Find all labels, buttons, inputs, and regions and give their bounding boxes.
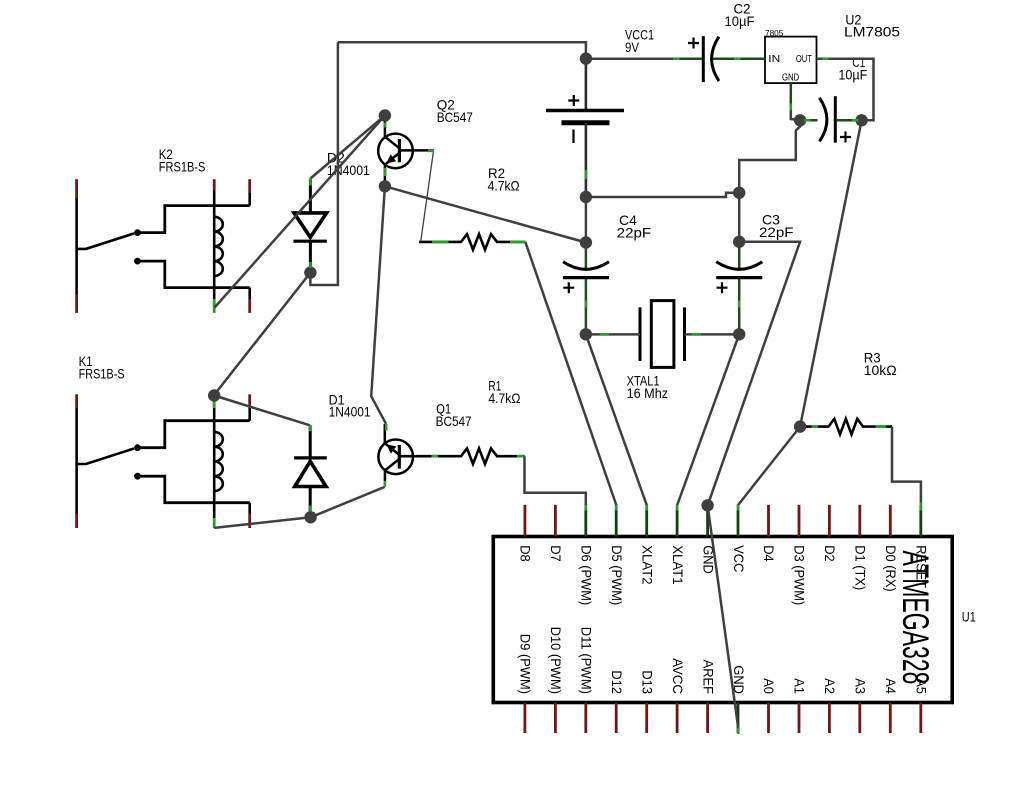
svg-text:A4: A4 [883,678,899,694]
pin A5 (U1 bottom) [919,703,922,734]
node C1 left (GND net) [794,114,806,126]
wire C4 bottom to XLAT2 [586,334,647,505]
green connection ticks [310,59,921,734]
svg-text:OUT: OUT [796,54,812,65]
node Q2 collector junction [379,109,391,121]
node C1 right (5V net) [855,114,867,126]
svg-text:D0 (RX): D0 (RX) [883,545,899,592]
pin D12 (U1 bottom) [615,703,618,734]
relay K2 [77,179,250,313]
svg-text:D1 (TX): D1 (TX) [853,545,869,590]
wire Q2 emitter to Q1 emitter [371,186,386,424]
svg-text:D3 (PWM): D3 (PWM) [792,545,808,605]
wire R1 to D6 [525,456,586,505]
diode D2 [293,179,326,273]
battery VCC1 [546,59,624,197]
capacitor C1 [819,96,851,143]
svg-text:D8: D8 [518,545,534,562]
svg-text:XLAT2: XLAT2 [639,545,655,585]
wire C1 to R3 diagonal [800,120,862,426]
wire 7805 OUT to C1 right [817,59,874,121]
IC U1 ATMEGA328 [493,537,952,703]
wire R3 to RESET [892,427,921,504]
pin AREF (U1 bottom) [706,703,709,734]
wire D1 anode to Q1 collector [311,487,385,517]
node GND jog junction [733,187,745,199]
svg-text:4.7kΩ: 4.7kΩ [488,178,520,194]
node Q2 emitter junction [379,180,391,192]
svg-text:22pF: 22pF [617,225,652,241]
resistor R1 [398,448,524,464]
svg-text:IN: IN [768,54,780,65]
svg-text:10µF: 10µF [725,13,755,29]
svg-text:FRS1B-S: FRS1B-S [159,159,206,175]
pin D8 (U1 top) [524,505,527,537]
svg-text:9V: 9V [625,39,640,55]
wire 7805 GND down [791,110,800,120]
svg-text:10kΩ: 10kΩ [864,362,897,378]
pin A4 (U1 bottom) [889,703,892,734]
pin D0 (U1 top) [889,505,892,537]
svg-text:D4: D4 [761,545,777,562]
svg-text:BC547: BC547 [436,413,472,429]
svg-text:D7: D7 [548,545,564,562]
svg-text:D9 (PWM): D9 (PWM) [518,634,534,694]
pin GND (U1 top) [706,505,709,537]
pin D9 (U1 bottom) [524,703,527,734]
svg-text:A0: A0 [761,678,777,694]
node C3/XTAL1 right junction [733,328,745,340]
wire VCC riser to D2 cathode [310,42,338,285]
node K1 coil top junction [208,389,220,401]
pin D3 (U1 top) [798,505,801,537]
capacitor C3 [716,242,762,334]
wire K1 coil top to D1 cathode [214,396,310,426]
wire C3 top to GND pin diagonal [708,242,800,506]
node battery- junction [580,191,592,203]
wire R3 to VCC pin diagonal [738,427,800,505]
svg-text:A1: A1 [792,678,808,694]
pin VCC (U1 top) [737,505,740,537]
pin A2 (U1 bottom) [828,703,831,734]
wire C1 left lead [800,119,817,122]
wire C3 bottom to XLAT1 [677,334,739,505]
pin D2 (U1 top) [828,505,831,537]
svg-text:RESET: RESET [914,545,930,588]
pin GND2 (U1 bottom) [737,703,740,734]
node GND pin junction [701,499,713,511]
svg-text:U1: U1 [962,609,976,625]
pin D6 (U1 top) [584,505,587,537]
svg-text:1N4001: 1N4001 [329,404,371,420]
svg-text:4.7kΩ: 4.7kΩ [488,390,520,406]
svg-text:A3: A3 [853,678,869,694]
svg-text:AREF: AREF [700,660,716,694]
pin XLAT1 (U1 top) [676,505,679,537]
svg-text:LM7805: LM7805 [844,24,900,40]
transistor Q2 [378,116,433,187]
svg-text:16 Mhz: 16 Mhz [627,385,669,401]
node D1 anode junction [304,511,316,523]
pin D11 (U1 bottom) [584,703,587,734]
wire GND junction to C3 top [738,193,741,242]
pin D10 (U1 bottom) [554,703,557,734]
node C4/XTAL1 left junction [580,328,592,340]
wire D1 anode to K1 coil bottom [214,517,310,528]
node D2 cathode junction [304,266,316,278]
pin A1 (U1 bottom) [798,703,801,734]
wire R2 to D5 [525,242,616,505]
regulator U2 7805 [765,28,817,84]
svg-text:7805: 7805 [765,28,784,38]
wire GND pin to bottom GND diagonal [708,505,739,730]
wire VCC top rail [338,42,586,58]
node C3 top (GND net) [733,236,745,248]
pin D7 (U1 top) [554,505,557,537]
resistor R2 [419,234,525,250]
wire C2 to 7805 IN [740,57,765,60]
wire Q2 emitter to C4 top (GND) [385,186,586,242]
wire Q2 collector to K2 coil [215,116,385,308]
pin A0 (U1 bottom) [767,703,770,734]
wire 7805 GND lead [790,83,793,104]
capacitor C4 [563,243,609,335]
svg-text:D13: D13 [639,670,655,694]
svg-text:D5 (PWM): D5 (PWM) [609,545,625,605]
svg-text:AVCC: AVCC [670,658,686,694]
diode D1 [294,425,327,517]
wire battery+ to C2 [586,57,700,60]
svg-text:D12: D12 [609,670,625,694]
wire XTAL right [685,333,740,336]
pin D13 (U1 bottom) [645,703,648,734]
relay K1 [77,394,250,528]
svg-text:D11 (PWM): D11 (PWM) [579,627,595,694]
wire Q2 base to R2 [421,151,434,242]
svg-text:XLAT1: XLAT1 [670,545,686,585]
wire C2 right lead [713,57,737,60]
svg-text:D6 (PWM): D6 (PWM) [579,545,595,605]
resistor R3 [800,419,892,435]
svg-text:A5: A5 [914,678,930,694]
svg-text:D2: D2 [822,545,838,562]
wire D2 cathode to K1 coil top [214,273,310,395]
node C4 top (GND net) [580,236,592,248]
wire battery- to C4 top [585,197,588,243]
pin XLAT2 (U1 top) [645,505,648,537]
svg-text:GND: GND [782,73,799,84]
pin D5 (U1 top) [615,505,618,537]
svg-text:FRS1B-S: FRS1B-S [79,366,125,382]
svg-text:22pF: 22pF [759,224,794,240]
pin AVCC (U1 bottom) [676,703,679,734]
transistor Q1 [378,424,413,487]
svg-text:VCC: VCC [731,545,747,572]
wire C1 right lead [836,119,861,122]
node battery+ junction [580,52,592,64]
pin A3 (U1 bottom) [858,703,861,734]
capacitor C2 [688,36,719,82]
wire Q2 collector to D2 anode [310,116,385,179]
pin D4 (U1 top) [767,505,770,537]
svg-text:D10 (PWM): D10 (PWM) [548,627,564,694]
pin D1 (U1 top) [858,505,861,537]
wire C2 left lead [681,57,702,60]
svg-text:BC547: BC547 [437,109,473,125]
node R3 left junction [794,420,806,432]
crystal XTAL1 [640,301,685,368]
wire XTAL left [586,333,640,336]
svg-text:10µF: 10µF [838,67,867,83]
wire battery- run [586,193,739,197]
svg-text:A2: A2 [822,678,838,694]
wire GND zigzag C1 to battery- [739,120,800,193]
pin RESET (U1 top) [919,505,922,537]
